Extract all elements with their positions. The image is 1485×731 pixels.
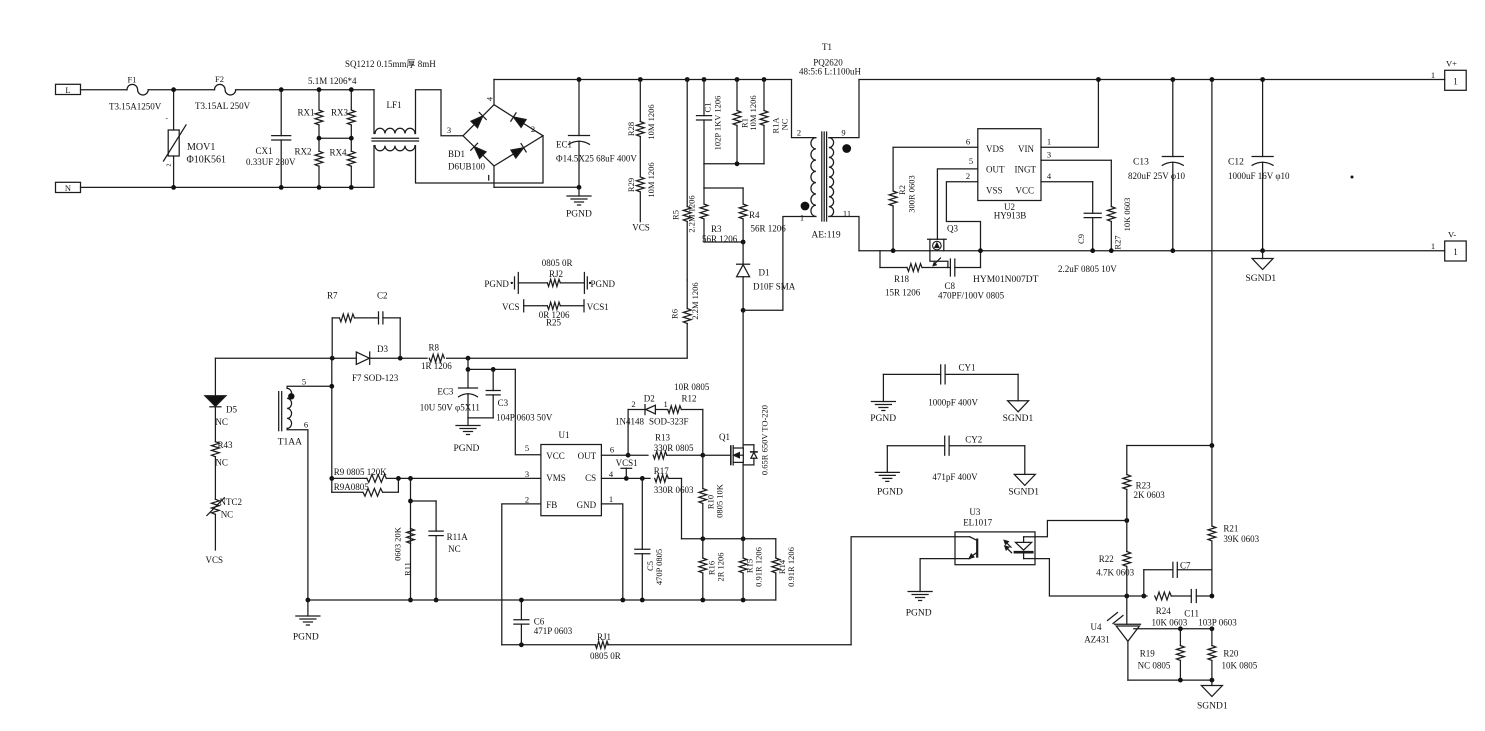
svg-text:EC3: EC3 xyxy=(437,387,454,397)
svg-text:R20: R20 xyxy=(1223,649,1239,659)
svg-text:F7 SOD-123: F7 SOD-123 xyxy=(352,373,399,383)
svg-text:PGND: PGND xyxy=(877,488,903,498)
svg-text:SGND1: SGND1 xyxy=(1197,702,1228,712)
svg-text:CX1: CX1 xyxy=(256,146,273,156)
svg-text:4.7K 0603: 4.7K 0603 xyxy=(1096,568,1134,578)
svg-text:MOV1: MOV1 xyxy=(187,142,215,153)
svg-text:D6UB100: D6UB100 xyxy=(448,162,486,172)
svg-text:T1: T1 xyxy=(822,42,832,52)
svg-text:RX4: RX4 xyxy=(330,148,348,158)
svg-text:R22: R22 xyxy=(1099,554,1114,564)
svg-text:R12: R12 xyxy=(682,393,697,403)
svg-text:R18: R18 xyxy=(894,274,910,284)
svg-text:C7: C7 xyxy=(1180,560,1191,570)
svg-text:PGND: PGND xyxy=(293,633,319,643)
svg-text:3: 3 xyxy=(525,469,529,479)
svg-text:RX1: RX1 xyxy=(298,108,315,118)
svg-text:HYM01N007DT: HYM01N007DT xyxy=(973,275,1039,285)
svg-text:R9 0805 120K: R9 0805 120K xyxy=(334,467,388,477)
svg-text:RX3: RX3 xyxy=(331,108,349,118)
svg-text:F1: F1 xyxy=(128,74,137,84)
svg-text:Φ14.5X25 68uF 400V: Φ14.5X25 68uF 400V xyxy=(556,154,637,164)
svg-text:2: 2 xyxy=(531,124,535,134)
svg-text:2K 0603: 2K 0603 xyxy=(1134,490,1166,500)
svg-text:PGND: PGND xyxy=(454,444,480,454)
svg-text:R13: R13 xyxy=(655,432,671,442)
svg-text:C1: C1 xyxy=(703,103,713,113)
svg-text:Q1: Q1 xyxy=(719,432,730,442)
svg-text:VCC: VCC xyxy=(1015,186,1034,196)
svg-text:2: 2 xyxy=(797,127,801,137)
svg-text:AZ431: AZ431 xyxy=(1084,635,1110,645)
svg-text:NC: NC xyxy=(780,118,790,130)
svg-text:GND: GND xyxy=(577,500,597,510)
svg-text:CS: CS xyxy=(585,473,596,483)
svg-text:470PF/100V 0805: 470PF/100V 0805 xyxy=(938,291,1005,301)
svg-text:6: 6 xyxy=(610,445,614,455)
svg-text:103P 0603: 103P 0603 xyxy=(1198,618,1237,628)
svg-text:U3: U3 xyxy=(969,507,980,517)
svg-text:0.65R 650V TO-220: 0.65R 650V TO-220 xyxy=(760,405,770,475)
svg-text:R3: R3 xyxy=(711,224,722,234)
svg-text:AE:119: AE:119 xyxy=(811,231,840,241)
svg-text:NC: NC xyxy=(215,458,228,468)
svg-text:6: 6 xyxy=(966,136,970,146)
svg-text:PGND: PGND xyxy=(870,414,896,424)
svg-text:1: 1 xyxy=(800,213,804,223)
svg-text:PGND: PGND xyxy=(591,279,616,289)
svg-text:VIN: VIN xyxy=(1018,144,1034,154)
svg-text:470P 0805: 470P 0805 xyxy=(654,549,664,585)
svg-text:56R 1206: 56R 1206 xyxy=(751,224,787,234)
svg-text:D5: D5 xyxy=(226,405,237,415)
svg-text:5: 5 xyxy=(969,156,973,166)
svg-text:10M 1206: 10M 1206 xyxy=(646,104,656,139)
svg-text:V+: V+ xyxy=(1446,59,1457,69)
svg-text:0805 0R: 0805 0R xyxy=(542,258,573,268)
svg-text:R25: R25 xyxy=(546,318,562,328)
svg-text:BD1: BD1 xyxy=(448,149,465,159)
svg-text:NC: NC xyxy=(448,544,461,554)
svg-text:10K 0603: 10K 0603 xyxy=(1152,618,1188,628)
svg-text:1: 1 xyxy=(1453,77,1458,87)
svg-text:2.2uF 0805 10V: 2.2uF 0805 10V xyxy=(1058,264,1117,274)
svg-text:2: 2 xyxy=(966,171,970,181)
svg-text:VCS: VCS xyxy=(502,302,520,312)
svg-text:V-: V- xyxy=(1448,230,1456,240)
svg-text:0805 10K: 0805 10K xyxy=(715,483,725,518)
svg-text:1000pF 400V: 1000pF 400V xyxy=(928,397,978,407)
svg-text:R9A0805: R9A0805 xyxy=(334,482,370,492)
svg-text:C12: C12 xyxy=(1228,158,1244,168)
svg-text:VMS: VMS xyxy=(546,473,566,483)
svg-text:NC: NC xyxy=(221,510,234,520)
svg-text:R4: R4 xyxy=(749,210,760,220)
svg-text:L: L xyxy=(65,85,70,95)
svg-text:10U 50V φ5X11: 10U 50V φ5X11 xyxy=(420,403,480,413)
svg-text:N: N xyxy=(65,183,71,193)
svg-text:F2: F2 xyxy=(215,74,224,84)
svg-text:1: 1 xyxy=(1453,247,1458,257)
svg-text:D2: D2 xyxy=(644,394,655,404)
svg-text:2: 2 xyxy=(167,164,173,167)
svg-text:3: 3 xyxy=(447,125,451,135)
svg-text:SOD-323F: SOD-323F xyxy=(649,417,689,427)
svg-text:Q3: Q3 xyxy=(947,224,958,234)
svg-text:3: 3 xyxy=(1047,150,1051,160)
svg-text:471pF 400V: 471pF 400V xyxy=(932,472,978,482)
svg-text:2: 2 xyxy=(631,399,635,409)
svg-text:RJ2: RJ2 xyxy=(549,269,563,279)
svg-text:PGND: PGND xyxy=(906,609,932,619)
svg-text:C8: C8 xyxy=(945,281,956,291)
svg-text:OUT: OUT xyxy=(578,451,597,461)
svg-text:VCC: VCC xyxy=(546,451,565,461)
svg-text:R7: R7 xyxy=(327,291,338,301)
svg-text:HY913B: HY913B xyxy=(994,211,1027,221)
svg-text:820uF 25V φ10: 820uF 25V φ10 xyxy=(1128,171,1186,181)
svg-text:VSS: VSS xyxy=(986,186,1003,196)
svg-text:39K 0603: 39K 0603 xyxy=(1223,534,1259,544)
svg-text:471P 0603: 471P 0603 xyxy=(534,626,573,636)
svg-text:0603 20K: 0603 20K xyxy=(393,526,403,561)
svg-text:1: 1 xyxy=(1047,136,1051,146)
svg-text:T1AA: T1AA xyxy=(278,438,302,448)
svg-text:0.91R 1206: 0.91R 1206 xyxy=(754,547,764,587)
svg-text:R11: R11 xyxy=(403,562,413,576)
svg-text:CY2: CY2 xyxy=(965,435,982,445)
svg-text:NC: NC xyxy=(215,417,228,427)
svg-text:Φ10K561: Φ10K561 xyxy=(187,155,227,166)
svg-text:R8: R8 xyxy=(429,342,440,352)
svg-text:R28: R28 xyxy=(626,122,636,136)
svg-text:104P 0603 50V: 104P 0603 50V xyxy=(496,413,553,423)
svg-text:T3.15AL 250V: T3.15AL 250V xyxy=(195,101,251,111)
svg-text:R17: R17 xyxy=(654,466,670,476)
svg-text:R19: R19 xyxy=(1140,649,1156,659)
svg-text:2R 1206: 2R 1206 xyxy=(716,552,726,581)
svg-text:10M 1206: 10M 1206 xyxy=(748,95,758,130)
svg-text:R6: R6 xyxy=(670,309,680,319)
svg-text:0.33UF 280V: 0.33UF 280V xyxy=(246,157,296,167)
svg-text:CY1: CY1 xyxy=(959,363,976,373)
svg-text:5: 5 xyxy=(302,377,306,387)
svg-text:48:5:6 L:1100uH: 48:5:6 L:1100uH xyxy=(799,67,861,77)
svg-text:1N4148: 1N4148 xyxy=(615,417,644,427)
svg-text:VCS1: VCS1 xyxy=(587,302,609,312)
svg-text:5.1M 1206*4: 5.1M 1206*4 xyxy=(308,76,357,86)
svg-text:VCS: VCS xyxy=(632,223,650,233)
svg-text:R27: R27 xyxy=(1113,235,1123,249)
svg-text:300R 0603: 300R 0603 xyxy=(907,175,917,213)
svg-text:SQ1212 0.15mm厚 8mH: SQ1212 0.15mm厚 8mH xyxy=(345,59,436,69)
svg-text:0805 0R: 0805 0R xyxy=(590,651,621,661)
svg-text:6: 6 xyxy=(304,420,308,430)
svg-text:U4: U4 xyxy=(1091,622,1102,632)
svg-text:2: 2 xyxy=(525,495,529,505)
svg-text:1R 1206: 1R 1206 xyxy=(421,361,452,371)
svg-text:T3.15A1250V: T3.15A1250V xyxy=(109,101,162,111)
svg-text:SGND1: SGND1 xyxy=(1246,274,1277,284)
svg-text:EC1: EC1 xyxy=(556,140,572,150)
svg-text:R5: R5 xyxy=(671,210,681,220)
svg-text:C2: C2 xyxy=(377,291,388,301)
svg-text:330R 0603: 330R 0603 xyxy=(654,485,694,495)
svg-text:15R 1206: 15R 1206 xyxy=(885,288,921,298)
svg-text:10K 0603: 10K 0603 xyxy=(1122,198,1132,232)
svg-text:D10F SMA: D10F SMA xyxy=(753,282,796,292)
svg-text:RJ1: RJ1 xyxy=(597,632,611,642)
svg-text:2.2M 1206: 2.2M 1206 xyxy=(690,282,700,319)
svg-text:FB: FB xyxy=(546,500,557,510)
svg-text:1: 1 xyxy=(1431,70,1435,80)
svg-text:D1: D1 xyxy=(759,268,770,278)
svg-text:56R 1206: 56R 1206 xyxy=(702,234,738,244)
svg-text:SGND1: SGND1 xyxy=(1008,488,1039,498)
svg-text:D3: D3 xyxy=(377,344,388,354)
svg-text:4: 4 xyxy=(486,97,495,101)
svg-text:NTC2: NTC2 xyxy=(220,497,243,507)
svg-text:5: 5 xyxy=(525,443,529,453)
svg-text:R11A: R11A xyxy=(447,532,469,542)
svg-text:SGND1: SGND1 xyxy=(1003,414,1034,424)
svg-text:1000uF 16V φ10: 1000uF 16V φ10 xyxy=(1228,171,1290,181)
svg-text:OUT: OUT xyxy=(986,164,1005,174)
svg-text:C13: C13 xyxy=(1133,158,1149,168)
svg-text:102P 1KV 1206: 102P 1KV 1206 xyxy=(713,96,723,151)
svg-text:1: 1 xyxy=(609,494,613,504)
svg-text:VDS: VDS xyxy=(986,144,1004,154)
svg-text:INGT: INGT xyxy=(1015,164,1037,174)
svg-text:R23: R23 xyxy=(1136,481,1152,491)
svg-text:C9: C9 xyxy=(1076,234,1086,244)
svg-text:U1: U1 xyxy=(559,430,570,440)
svg-text:330R 0805: 330R 0805 xyxy=(654,443,694,453)
svg-text:10R 0805: 10R 0805 xyxy=(674,382,710,392)
svg-text:10K 0805: 10K 0805 xyxy=(1222,661,1258,671)
svg-text:R2: R2 xyxy=(897,185,907,195)
svg-text:R43: R43 xyxy=(218,440,234,450)
svg-text:EL1017: EL1017 xyxy=(963,517,992,527)
svg-text:1: 1 xyxy=(1431,241,1435,251)
svg-text:VCS: VCS xyxy=(206,555,224,565)
svg-text:R21: R21 xyxy=(1223,524,1238,534)
svg-text:LF1: LF1 xyxy=(387,100,402,110)
svg-text:RX2: RX2 xyxy=(295,147,312,157)
svg-text:NC 0805: NC 0805 xyxy=(1138,661,1171,671)
svg-text:C3: C3 xyxy=(498,398,509,408)
svg-text:C6: C6 xyxy=(534,617,545,627)
svg-text:R29: R29 xyxy=(626,178,636,192)
svg-text:PGND: PGND xyxy=(566,210,592,220)
svg-text:PGND: PGND xyxy=(484,279,509,289)
svg-text:1: 1 xyxy=(663,399,667,409)
svg-text:0.91R 1206: 0.91R 1206 xyxy=(786,547,796,587)
svg-text:R24: R24 xyxy=(1156,606,1172,616)
svg-text:9: 9 xyxy=(841,127,845,137)
svg-text:VCS1: VCS1 xyxy=(616,458,638,468)
svg-text:2.2M 1206: 2.2M 1206 xyxy=(687,195,697,232)
svg-text:10M 1206: 10M 1206 xyxy=(646,162,656,197)
